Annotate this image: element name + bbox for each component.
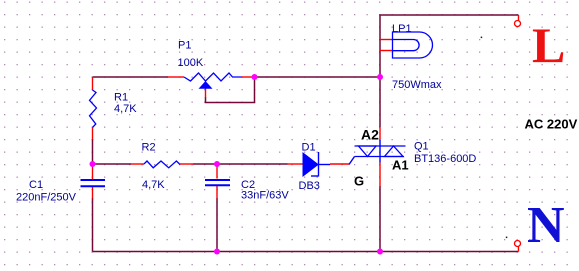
svg-text:100K: 100K — [178, 57, 204, 69]
stray artifact dot near lamp — [481, 37, 483, 39]
triac Q1 bottom bar — [355, 156, 405, 158]
wire R2 left segment — [93, 163, 132, 165]
capacitor C2 bottom plate — [205, 184, 230, 186]
wire C1 leg down — [92, 198, 94, 252]
wire left rail between R1 and C1 junction — [92, 139, 94, 164]
pin P1 right — [242, 76, 255, 78]
svg-text:Q1: Q1 — [414, 141, 429, 153]
svg-text:C1: C1 — [29, 179, 43, 191]
pin P1 wiper — [205, 89, 207, 98]
pin triac A1 — [379, 163, 381, 187]
resistor R1 zigzag body — [90, 90, 97, 128]
potentiometer P1 zigzag body — [184, 73, 242, 81]
svg-text:D1: D1 — [302, 142, 316, 154]
svg-text:G: G — [354, 174, 364, 189]
svg-text:33nF/63V: 33nF/63V — [241, 190, 289, 202]
wire C2 leg down — [216, 198, 218, 252]
pin D1 left — [288, 163, 304, 165]
potentiometer P1 wiper arrow — [199, 81, 213, 89]
triac Q1 right triangle — [385, 146, 404, 157]
node junction P1 output — [252, 74, 258, 80]
diac D1 triangle — [303, 153, 318, 176]
pin C2 top — [216, 164, 218, 179]
svg-text:A1: A1 — [392, 158, 409, 173]
capacitor C2 top plate — [205, 179, 230, 181]
pin D1 right gate wire — [330, 163, 349, 165]
node junction R2 C2 — [214, 161, 220, 167]
pin lamp bottom — [380, 50, 393, 52]
node junction triac bottom — [377, 249, 383, 255]
svg-text:4,7K: 4,7K — [142, 179, 165, 191]
svg-text:4,7K: 4,7K — [114, 103, 137, 115]
svg-text:LP1: LP1 — [392, 23, 412, 35]
diac D1 bar — [318, 152, 320, 177]
capacitor C1 top plate — [81, 179, 106, 181]
pin triac A2 — [379, 127, 381, 140]
svg-text:N: N — [527, 197, 565, 254]
triac Q1 top bar — [355, 145, 406, 147]
svg-text:220nF/250V: 220nF/250V — [16, 192, 77, 204]
pin R2 left — [131, 163, 144, 165]
lamp LP1 outer envelope — [393, 32, 433, 58]
terminal N riser wire — [518, 247, 520, 252]
node junction top rail — [377, 74, 383, 80]
svg-text:AC 220V: AC 220V — [525, 117, 578, 132]
pin C1 top — [92, 165, 94, 180]
capacitor C1 bottom plate — [81, 185, 106, 187]
triac Q1 center vertical — [379, 140, 381, 163]
wire P1 wiper elbow to output junction — [206, 77, 255, 103]
triac Q1 left triangle — [359, 146, 377, 157]
pin R1 top — [92, 77, 94, 90]
pin lamp top — [380, 39, 392, 41]
svg-text:P1: P1 — [178, 40, 191, 52]
wire R2 right segment to diac — [193, 163, 288, 165]
resistor R2 zigzag body — [144, 161, 180, 168]
pin R1 bottom — [92, 128, 94, 140]
stray artifact dot near N terminal — [506, 237, 508, 239]
terminal N circle — [515, 241, 521, 247]
svg-text:R2: R2 — [142, 142, 156, 154]
svg-text:DB3: DB3 — [299, 180, 320, 192]
node junction C2 bottom — [214, 249, 220, 255]
wire top-left horizontal from left rail to P1 — [93, 76, 169, 78]
terminal L drop wire — [518, 15, 520, 20]
wire triac A1 down to bottom rail — [379, 186, 381, 252]
pin R2 right — [180, 163, 193, 165]
pin P1 left — [168, 76, 184, 78]
wire from P1 junction to triac rail — [255, 76, 381, 78]
diac D1 bar hook — [311, 175, 319, 177]
node junction R1 C1 R2 — [90, 161, 96, 167]
pin C2 bottom — [216, 186, 218, 199]
wire top rail to L terminal — [380, 15, 519, 77]
svg-text:L: L — [532, 17, 565, 73]
svg-text:A2: A2 — [361, 127, 379, 143]
pin C1 bottom — [92, 187, 94, 199]
wire bottom rail — [93, 251, 519, 253]
triac Q1 gate diagonal — [349, 157, 355, 165]
svg-text:750Wmax: 750Wmax — [392, 79, 442, 91]
svg-text:R1: R1 — [114, 92, 128, 104]
wire rail junction down to triac A2 — [379, 77, 381, 127]
terminal L circle — [515, 21, 521, 27]
diac D1 right lead — [319, 164, 331, 166]
svg-text:BT136-600D: BT136-600D — [414, 153, 476, 165]
lamp LP1 inner filament — [393, 40, 420, 51]
